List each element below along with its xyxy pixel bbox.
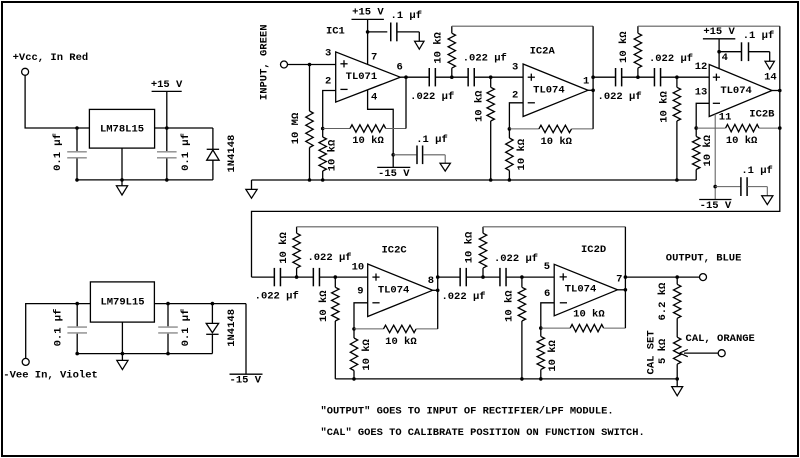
label .1 uf (-15 IC2B) bbox=[741, 165, 773, 177]
svg-text:.022 μf: .022 μf bbox=[598, 91, 642, 103]
label 10k feedback IC2B bbox=[726, 135, 758, 147]
label .022 uf (g) bbox=[441, 291, 485, 303]
svg-text:10 kΩ: 10 kΩ bbox=[516, 138, 528, 170]
svg-text:3: 3 bbox=[325, 47, 331, 59]
svg-text:.022 μf: .022 μf bbox=[649, 53, 693, 65]
label 10k G up bbox=[463, 231, 475, 263]
wire output to terminal bbox=[625, 276, 699, 278]
wire regulator ground pin (79L15) bbox=[121, 322, 123, 360]
svg-text:TL074: TL074 bbox=[378, 285, 410, 297]
svg-text:10 kΩ: 10 kΩ bbox=[463, 231, 475, 263]
node input junction bbox=[308, 63, 312, 67]
wire cap c to cap d bbox=[622, 76, 655, 78]
svg-text:5: 5 bbox=[544, 261, 550, 273]
label pin 6 bbox=[397, 62, 403, 74]
node output IC2B bbox=[778, 89, 782, 130]
resistor 10k A up bbox=[448, 26, 455, 77]
wire feedback top (IC2D) bbox=[483, 226, 625, 228]
svg-text:+15 V: +15 V bbox=[151, 79, 183, 91]
label 10k J2A bbox=[516, 138, 528, 170]
svg-text:TL074: TL074 bbox=[565, 284, 597, 296]
resistor 10k J2 to ground bbox=[319, 129, 326, 181]
label TL074 IC2D bbox=[565, 284, 597, 296]
resistor 10k feedback IC2B bbox=[696, 124, 780, 131]
label 10k J2 bbox=[327, 139, 339, 171]
wire pin 2 feedback node bbox=[323, 91, 336, 129]
terminal +Vcc input bbox=[22, 68, 29, 75]
node output IC2D bbox=[624, 275, 628, 291]
capacitor .1 uf (-15 IC1) bbox=[393, 146, 445, 165]
label INPUT, GREEN bbox=[258, 24, 270, 100]
svg-text:10 kΩ: 10 kΩ bbox=[361, 338, 373, 370]
capacitor .1 uf (-15 IC2B) bbox=[715, 177, 767, 196]
ground (-15 IC1) bbox=[440, 163, 450, 171]
label .1 uf (+15 IC1) bbox=[391, 10, 423, 22]
node J2D bbox=[539, 326, 543, 330]
svg-text:7: 7 bbox=[616, 274, 622, 286]
resistor 10k feedback IC1 bbox=[323, 125, 406, 132]
node B bbox=[489, 75, 493, 79]
svg-text:.022 μf: .022 μf bbox=[494, 253, 538, 265]
svg-text:-15 V: -15 V bbox=[230, 374, 262, 386]
svg-text:5 kΩ: 5 kΩ bbox=[657, 338, 669, 364]
svg-text:10 kΩ: 10 kΩ bbox=[659, 91, 671, 123]
node output IC2A bbox=[591, 75, 595, 92]
capacitor 0.1uf output bbox=[157, 128, 177, 180]
label pin 4 IC2B bbox=[722, 52, 728, 64]
node C1 bbox=[636, 75, 640, 79]
label pin 3 bbox=[325, 47, 331, 59]
wire pin 7 supply bbox=[367, 19, 369, 64]
svg-text:.1 μf: .1 μf bbox=[391, 10, 423, 22]
wire cap d to pin 12 bbox=[661, 76, 710, 78]
node output cap junction bbox=[165, 126, 169, 130]
wire to ground (-15 IC1) bbox=[444, 155, 446, 163]
node pin11 cap tap bbox=[713, 185, 717, 189]
label +Vcc, In Red bbox=[13, 52, 89, 64]
svg-text:INPUT, GREEN: INPUT, GREEN bbox=[258, 24, 270, 100]
ground (79L15) bbox=[117, 360, 128, 369]
label 0.1 uf (input cap) bbox=[52, 133, 64, 171]
label 10 Mohm bbox=[290, 112, 302, 144]
svg-text:4: 4 bbox=[722, 52, 728, 64]
svg-text:"CAL" GOES TO CALIBRATE POSITI: "CAL" GOES TO CALIBRATE POSITION ON FUNC… bbox=[321, 427, 645, 439]
diode 1N4148 (negative rail) bbox=[206, 304, 218, 354]
node input cap junction bbox=[75, 126, 79, 130]
ground (+15 IC2B) bbox=[765, 61, 774, 69]
svg-text:.022 μf: .022 μf bbox=[255, 290, 299, 302]
resistor 10k F down bbox=[332, 277, 339, 379]
label pin 10 bbox=[352, 262, 365, 274]
op-amp IC1 TL071 bbox=[336, 52, 401, 102]
wire cap a to cap b bbox=[435, 76, 468, 78]
resistor 10k J2A to ground bbox=[506, 129, 513, 180]
label 10k E up bbox=[278, 232, 290, 264]
minus input IC2D bbox=[560, 302, 567, 304]
op-amp IC2A TL074 bbox=[523, 64, 588, 117]
svg-text:10 kΩ: 10 kΩ bbox=[573, 309, 605, 321]
label +15 V rail bbox=[151, 79, 183, 92]
svg-text:10 MΩ: 10 MΩ bbox=[290, 112, 302, 144]
svg-text:10 kΩ: 10 kΩ bbox=[504, 290, 516, 322]
svg-text:10: 10 bbox=[352, 262, 365, 274]
wire input to pin 3 bbox=[288, 64, 336, 66]
svg-text:12: 12 bbox=[695, 61, 708, 73]
svg-text:1N4148: 1N4148 bbox=[226, 309, 238, 347]
wire pin 9 node bbox=[354, 303, 368, 329]
op-amp IC2D TL074 bbox=[554, 264, 617, 316]
svg-text:CAL SET: CAL SET bbox=[645, 330, 657, 374]
capacitor .022 uf (g) bbox=[460, 268, 466, 286]
label .022 uf (c) bbox=[598, 91, 642, 103]
label CAL, ORANGE bbox=[686, 333, 755, 345]
node J2 bbox=[321, 127, 325, 131]
node J2A bbox=[508, 127, 512, 131]
wire output IC2C bbox=[433, 227, 438, 329]
svg-text:10 kΩ: 10 kΩ bbox=[540, 136, 572, 148]
wire cap f to pin 10 bbox=[320, 276, 368, 278]
wire regulator output bbox=[155, 127, 213, 129]
capacitor .022 uf (d) bbox=[654, 68, 660, 86]
svg-text:+Vcc, In Red: +Vcc, In Red bbox=[13, 52, 89, 64]
label 10k J2B bbox=[702, 134, 714, 166]
label pin 1 IC2A bbox=[583, 75, 589, 87]
resistor 10k B down bbox=[487, 77, 494, 180]
wire feedback to output bbox=[405, 77, 407, 128]
wire pin 4 supply IC2B bbox=[718, 39, 720, 69]
svg-text:7: 7 bbox=[371, 51, 377, 63]
svg-text:.1 μf: .1 μf bbox=[743, 30, 775, 42]
wire output IC2A bbox=[588, 26, 593, 129]
label +15 V (IC2B) bbox=[703, 26, 736, 39]
svg-text:13: 13 bbox=[695, 87, 708, 99]
minus input IC2A bbox=[528, 102, 535, 104]
svg-text:10 kΩ: 10 kΩ bbox=[327, 139, 339, 171]
plus input IC2A bbox=[528, 74, 535, 81]
resistor 6.2k bbox=[674, 277, 681, 337]
label .022 uf (b) bbox=[463, 53, 507, 65]
resistor 10k feedback IC2A bbox=[509, 125, 593, 132]
plus input IC1 bbox=[340, 60, 347, 67]
svg-text:.022 μf: .022 μf bbox=[463, 53, 507, 65]
svg-text:IC2A: IC2A bbox=[530, 46, 556, 58]
label pin 5 bbox=[544, 261, 550, 273]
resistor 10k H down bbox=[518, 277, 525, 379]
node output IC1 bbox=[404, 75, 408, 79]
label pin 2 IC2A bbox=[512, 89, 518, 101]
svg-text:0.1 μf: 0.1 μf bbox=[52, 309, 64, 347]
label 10k J2D bbox=[547, 339, 559, 371]
label 0.1 uf (79L15 output cap) bbox=[180, 309, 192, 347]
node output junction bbox=[675, 275, 679, 279]
wire pin 6 node bbox=[541, 303, 554, 328]
label pin 13 bbox=[695, 87, 708, 99]
node J2C bbox=[352, 327, 356, 331]
wire feedback top (IC2B) bbox=[638, 25, 780, 27]
resistor 10k E up bbox=[293, 227, 300, 277]
capacitor .1 uf (+15 IC1) bbox=[368, 23, 420, 42]
label -15 V (IC2B) bbox=[699, 200, 732, 212]
label OUTPUT, BLUE bbox=[666, 252, 742, 264]
potentiometer 5k CAL SET bbox=[674, 337, 681, 386]
svg-text:+15 V: +15 V bbox=[703, 26, 735, 38]
regulator LM79L15 bbox=[90, 282, 154, 322]
capacitor .1 uf (+15 IC2B) bbox=[719, 42, 770, 61]
capacitor .022 uf (f) bbox=[313, 268, 319, 286]
svg-text:10 kΩ: 10 kΩ bbox=[433, 31, 445, 63]
label IC2C bbox=[381, 245, 407, 257]
node D1 bbox=[675, 75, 679, 79]
node pin4 cap tap bbox=[391, 153, 395, 157]
node E bbox=[295, 275, 299, 279]
svg-text:TL074: TL074 bbox=[720, 85, 752, 97]
op-amp IC2C TL074 bbox=[368, 264, 433, 317]
svg-text:-15 V: -15 V bbox=[700, 200, 732, 212]
resistor 10k J2B to ground bbox=[693, 128, 700, 180]
wire ground rail (79L15) bbox=[77, 353, 212, 355]
wire IC2A out to cap c bbox=[593, 76, 615, 78]
label 5 kohm bbox=[657, 338, 669, 364]
note cal routing bbox=[321, 427, 645, 439]
resistor 10 Mohm bbox=[306, 65, 313, 181]
capacitor .022 uf (a) bbox=[429, 68, 435, 86]
wire +15 V tap bbox=[166, 91, 168, 128]
svg-text:6: 6 bbox=[544, 288, 550, 300]
svg-text:8: 8 bbox=[428, 275, 434, 287]
label -15 V (IC1) bbox=[377, 167, 410, 179]
svg-text:TL071: TL071 bbox=[346, 71, 378, 83]
svg-text:10 kΩ: 10 kΩ bbox=[318, 290, 330, 322]
svg-text:10 kΩ: 10 kΩ bbox=[385, 336, 417, 348]
label 10k D down bbox=[659, 91, 671, 123]
svg-text:3: 3 bbox=[512, 62, 518, 74]
node G bbox=[481, 275, 485, 279]
label pin 11 bbox=[719, 112, 732, 124]
svg-text:IC2C: IC2C bbox=[381, 245, 407, 257]
wire ground rail row 1 bbox=[252, 179, 697, 181]
minus input IC2C bbox=[372, 302, 379, 304]
svg-text:2: 2 bbox=[325, 76, 331, 88]
svg-text:IC2B: IC2B bbox=[749, 109, 775, 121]
label pin 12 bbox=[695, 61, 708, 73]
node pin7 cap tap bbox=[366, 30, 370, 34]
svg-text:OUTPUT, BLUE: OUTPUT, BLUE bbox=[666, 252, 742, 264]
wire rail stub to ground bbox=[251, 180, 253, 189]
label .022 uf (h) bbox=[494, 253, 538, 265]
wire output IC1 bbox=[400, 76, 429, 78]
op-amp IC2B TL074 bbox=[709, 65, 772, 117]
resistor 10k feedback IC2C bbox=[354, 325, 438, 332]
label 10k feedback IC2C bbox=[385, 336, 417, 348]
svg-text:2: 2 bbox=[512, 89, 518, 101]
label pin 9 bbox=[357, 286, 363, 298]
node pin4 cap tap IC2B bbox=[717, 50, 721, 54]
wire cap h to pin 5 bbox=[506, 276, 554, 278]
wire output IC2D bbox=[618, 227, 626, 328]
wire output IC2B routing bbox=[252, 26, 780, 277]
svg-text:1: 1 bbox=[583, 75, 589, 87]
resistor 10k J2D to ground bbox=[537, 328, 544, 379]
label TL074 IC2C bbox=[378, 285, 410, 297]
wire to ground (+15 IC2B) bbox=[769, 52, 771, 62]
label 10k feedback IC2D bbox=[573, 309, 605, 321]
node output IC2C bbox=[436, 275, 440, 292]
capacitor 0.1uf input bbox=[67, 128, 87, 180]
minus input IC1 bbox=[340, 88, 347, 90]
label CAL SET bbox=[645, 330, 657, 374]
label 1N4148 (bottom) bbox=[226, 309, 238, 347]
label -15 V rail (79L15) bbox=[230, 374, 263, 386]
wiper arrow bbox=[680, 350, 719, 357]
node diode junction (79L15) bbox=[211, 302, 215, 306]
label pin 2 bbox=[325, 76, 331, 88]
wire regulator ground pin bbox=[121, 148, 123, 186]
wire -Vee to regulator input bbox=[26, 304, 91, 359]
label pin 4 bbox=[371, 91, 377, 103]
resistor 10k G up bbox=[479, 227, 486, 277]
svg-text:.1 μf: .1 μf bbox=[741, 165, 773, 177]
wire row2 in to cap e bbox=[252, 276, 275, 278]
label .022 uf (a) bbox=[410, 91, 454, 103]
plus input IC2C bbox=[372, 274, 379, 281]
node F bbox=[334, 275, 338, 279]
wire pin 2 IC2A bbox=[509, 103, 523, 129]
label pin 14 bbox=[764, 72, 777, 84]
terminal input bbox=[281, 61, 288, 68]
wire feedback top (IC2C) bbox=[297, 226, 438, 228]
svg-text:4: 4 bbox=[371, 91, 377, 103]
svg-text:10 kΩ: 10 kΩ bbox=[352, 135, 384, 147]
capacitor .022 uf (e) bbox=[274, 268, 280, 286]
wire ground rail (78L15) bbox=[77, 179, 213, 181]
ground (78L15) bbox=[116, 186, 127, 195]
label IC2A bbox=[530, 46, 556, 58]
node rail row1 junctions bbox=[308, 178, 679, 182]
label pin 7 bbox=[371, 51, 377, 63]
wire to ground (+15 IC1) bbox=[418, 32, 420, 41]
label IC1 bbox=[326, 25, 345, 37]
ground (row 1 rail) bbox=[246, 189, 257, 198]
node A bbox=[450, 75, 454, 79]
svg-text:0.1 μf: 0.1 μf bbox=[180, 133, 192, 171]
node rail row2 junctions bbox=[352, 377, 679, 381]
resistor 10k D down bbox=[673, 77, 680, 180]
label IC2B bbox=[749, 109, 775, 121]
wire cap g to cap h bbox=[466, 276, 500, 278]
svg-text:10 kΩ: 10 kΩ bbox=[278, 232, 290, 264]
svg-text:.022 μf: .022 μf bbox=[410, 91, 454, 103]
node H bbox=[520, 275, 524, 279]
svg-text:IC1: IC1 bbox=[326, 25, 345, 37]
node input cap junction (79L15) bbox=[75, 302, 79, 306]
terminal CAL bbox=[718, 350, 725, 357]
label .022 uf (f) bbox=[307, 252, 351, 264]
svg-text:+15 V: +15 V bbox=[352, 7, 384, 19]
label TL074 IC2A bbox=[533, 85, 565, 97]
svg-text:-Vee In, Violet: -Vee In, Violet bbox=[3, 369, 98, 381]
label -Vee In, Violet bbox=[3, 369, 98, 381]
svg-text:TL074: TL074 bbox=[533, 85, 565, 97]
ground (+15 IC1) bbox=[415, 41, 424, 49]
note output routing bbox=[321, 405, 614, 417]
label 10k feedback IC1 bbox=[352, 135, 384, 147]
capacitor .022 uf (b) bbox=[468, 68, 474, 86]
label IC2D bbox=[581, 244, 606, 256]
label 10k C up bbox=[618, 31, 630, 63]
plus input IC2D bbox=[560, 273, 567, 280]
label .022 uf (d) bbox=[649, 53, 693, 65]
svg-text:10 kΩ: 10 kΩ bbox=[702, 134, 714, 166]
svg-text:"OUTPUT" GOES TO INPUT OF RECT: "OUTPUT" GOES TO INPUT OF RECTIFIER/LPF … bbox=[321, 405, 614, 417]
label 10k H down bbox=[504, 290, 516, 322]
svg-text:6: 6 bbox=[397, 62, 403, 74]
svg-text:LM78L15: LM78L15 bbox=[100, 123, 144, 135]
resistor 10k C up bbox=[634, 26, 641, 77]
label pin 7 IC2D bbox=[616, 274, 622, 286]
capacitor .022 uf (c) bbox=[616, 68, 622, 86]
label 0.1 uf (output cap) bbox=[180, 133, 192, 171]
label .022 uf (e) bbox=[255, 290, 299, 302]
label .1 uf (-15 IC1) bbox=[416, 134, 448, 146]
label .1 uf (+15 IC2B) bbox=[743, 30, 775, 42]
node output cap junction (79L15) bbox=[166, 302, 170, 306]
svg-text:LM79L15: LM79L15 bbox=[100, 297, 144, 309]
label 6.2 kohm bbox=[657, 282, 669, 321]
svg-text:11: 11 bbox=[719, 112, 732, 124]
svg-text:1N4148: 1N4148 bbox=[226, 135, 238, 173]
svg-text:.022 μf: .022 μf bbox=[307, 252, 351, 264]
svg-text:10 kΩ: 10 kΩ bbox=[474, 90, 486, 122]
regulator LM78L15 bbox=[89, 109, 154, 148]
wire cap b to pin 3 IC2A bbox=[474, 76, 523, 78]
wire pin 13 node bbox=[696, 103, 709, 128]
wire -15 V feed bbox=[245, 304, 247, 375]
svg-text:14: 14 bbox=[764, 72, 777, 84]
svg-text:IC2D: IC2D bbox=[581, 244, 606, 256]
svg-text:0.1 μf: 0.1 μf bbox=[52, 133, 64, 171]
svg-text:CAL, ORANGE: CAL, ORANGE bbox=[686, 333, 755, 345]
svg-text:10 kΩ: 10 kΩ bbox=[726, 135, 758, 147]
label pin 8 bbox=[428, 275, 434, 287]
terminal -Vee input bbox=[22, 358, 29, 365]
svg-text:10 kΩ: 10 kΩ bbox=[547, 339, 559, 371]
label 0.1 uf (79L15 input cap) bbox=[52, 309, 64, 347]
node rail junctions (79L15) bbox=[75, 352, 169, 356]
svg-text:9: 9 bbox=[357, 286, 363, 298]
terminal output bbox=[700, 274, 707, 281]
wire pin 4 supply bbox=[368, 90, 394, 168]
label 10k F down bbox=[318, 290, 330, 322]
label 10k feedback IC2A bbox=[540, 136, 572, 148]
label pin 6 IC2D bbox=[544, 288, 550, 300]
capacitor 0.1uf input (79L15) bbox=[67, 304, 87, 354]
node J2B bbox=[694, 126, 698, 130]
diode 1N4148 (positive rail) bbox=[207, 128, 219, 180]
wire pin 11 supply bbox=[714, 114, 716, 200]
wire ground rail row 2 bbox=[335, 378, 677, 380]
label pin 3 IC2A bbox=[512, 62, 518, 74]
capacitor .022 uf (h) bbox=[500, 268, 506, 286]
label +15 V (IC1) bbox=[352, 7, 385, 20]
node rail junctions bbox=[75, 178, 168, 182]
wire +Vcc to regulator input bbox=[25, 75, 89, 128]
ground (-15 IC2B) bbox=[762, 196, 773, 205]
label 1N4148 (top) bbox=[226, 135, 238, 173]
wire cap e to cap f bbox=[281, 276, 314, 278]
ground (CAL pot) bbox=[672, 387, 683, 396]
label TL071 bbox=[346, 71, 378, 83]
label 10k A up bbox=[433, 31, 445, 63]
